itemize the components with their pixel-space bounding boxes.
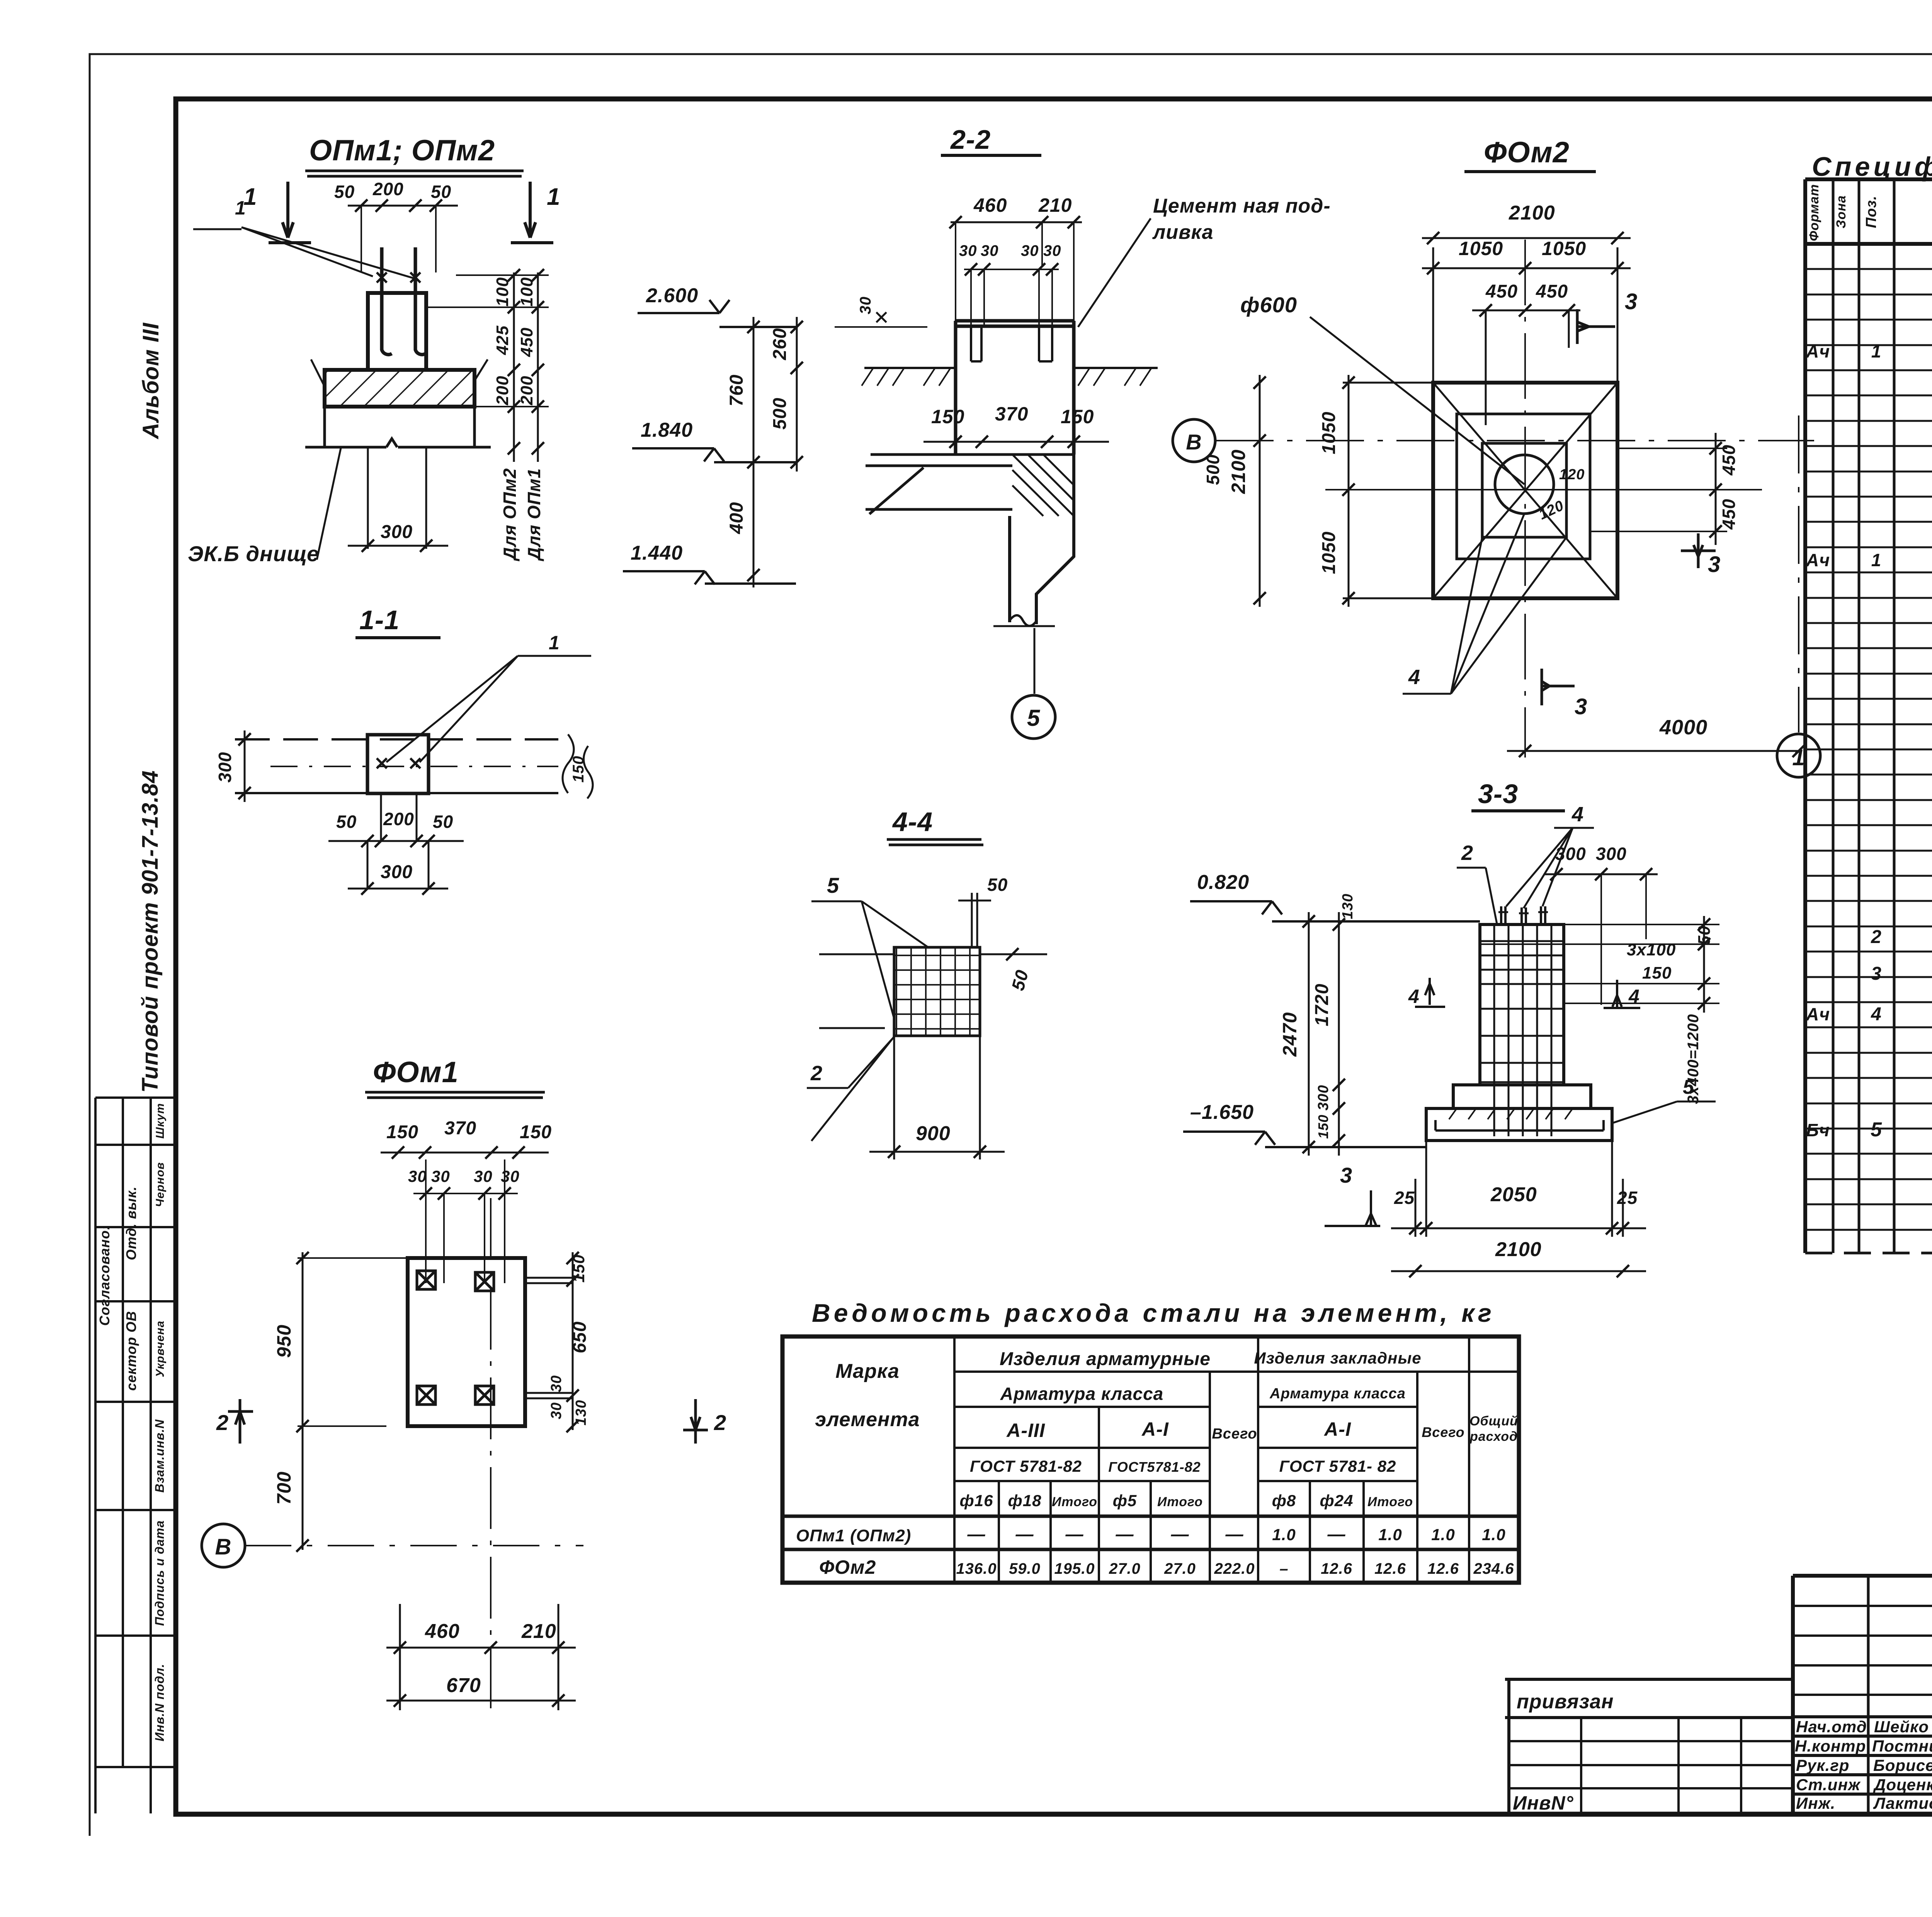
svg-text:Ведомость расхода стали на эле: Ведомость расхода стали на элемент, кг (812, 1299, 1492, 1327)
привязан sub-table (1505, 1679, 1793, 1813)
svg-text:222.0: 222.0 (1214, 1560, 1255, 1577)
svg-text:460: 460 (425, 1620, 460, 1643)
hatched corner (1012, 455, 1074, 516)
svg-text:5: 5 (1683, 1076, 1694, 1098)
svg-text:ф5: ф5 (1113, 1491, 1137, 1510)
svg-text:ГОСТ 5781- 82: ГОСТ 5781- 82 (1279, 1457, 1396, 1475)
svg-text:Согласовано:: Согласовано: (97, 1225, 112, 1326)
inner square (1482, 443, 1566, 537)
svg-text:30: 30 (981, 242, 999, 259)
svg-text:12.6: 12.6 (1374, 1560, 1406, 1577)
svg-text:460: 460 (973, 194, 1007, 216)
svg-text:200: 200 (372, 179, 404, 199)
svg-text:1: 1 (1871, 341, 1882, 361)
svg-text:—: — (967, 1524, 986, 1544)
svg-text:5: 5 (1027, 705, 1041, 731)
svg-text:2: 2 (1871, 927, 1882, 947)
svg-text:5: 5 (1871, 1119, 1882, 1141)
svg-text:30: 30 (1021, 242, 1039, 259)
svg-text:760: 760 (726, 374, 747, 406)
margin rotated labels (97, 1103, 167, 1742)
axis B circle (202, 1524, 245, 1567)
svg-text:элемента: элемента (815, 1408, 920, 1431)
svg-text:1: 1 (549, 632, 560, 654)
svg-text:2: 2 (810, 1062, 823, 1085)
svg-text:—: — (1171, 1524, 1189, 1544)
svg-text:150: 150 (1642, 964, 1672, 982)
axis 1 circle (1777, 734, 1820, 777)
svg-text:Нач.отд: Нач.отд (1796, 1718, 1867, 1736)
center cross lines (1325, 489, 1762, 490)
svg-text:2: 2 (1461, 841, 1473, 865)
svg-text:2050: 2050 (1490, 1183, 1537, 1206)
ground line with hatching (864, 367, 1158, 369)
svg-text:195.0: 195.0 (1054, 1560, 1095, 1577)
svg-text:4: 4 (1628, 986, 1640, 1007)
svg-text:900: 900 (916, 1122, 951, 1145)
middle square (1457, 414, 1590, 559)
svg-text:27.0: 27.0 (1164, 1560, 1196, 1577)
svg-text:2100: 2100 (1495, 1238, 1542, 1261)
anchor bolts (382, 247, 425, 354)
svg-text:30: 30 (474, 1167, 493, 1185)
svg-text:1.440: 1.440 (631, 542, 683, 564)
svg-text:12.6: 12.6 (1427, 1560, 1459, 1577)
column ОПм (368, 293, 426, 370)
drawing 1-1 section plan (215, 605, 593, 895)
svg-text:50: 50 (336, 812, 357, 832)
svg-text:ГОСТ5781-82: ГОСТ5781-82 (1108, 1459, 1201, 1475)
signature rows text (1795, 1714, 1932, 1812)
right dim chain 450 450 (1715, 433, 1717, 545)
svg-text:1-1: 1-1 (359, 605, 400, 635)
svg-text:4000: 4000 (1659, 716, 1708, 739)
svg-text:расход: расход (1469, 1429, 1518, 1444)
svg-text:120: 120 (1559, 466, 1585, 483)
spec table content (1806, 267, 1932, 1260)
svg-text:300: 300 (381, 862, 413, 882)
svg-text:30: 30 (548, 1402, 565, 1419)
svg-text:ФОм2: ФОм2 (819, 1556, 876, 1578)
margin approval table (95, 1098, 175, 1813)
svg-text:150: 150 (570, 1254, 588, 1282)
drawing ФОм2 plan (1173, 136, 1820, 777)
svg-text:500: 500 (770, 397, 790, 429)
svg-text:ЭК.Б днище: ЭК.Б днище (188, 541, 319, 566)
svg-text:130: 130 (1340, 894, 1356, 919)
svg-text:Для ОПм2: Для ОПм2 (500, 468, 520, 562)
svg-text:950: 950 (273, 1325, 295, 1358)
svg-text:400: 400 (726, 502, 747, 534)
title block (угловой штамп) (1505, 1576, 1932, 1861)
svg-text:150: 150 (1061, 406, 1094, 427)
svg-text:Поз.: Поз. (1863, 196, 1879, 228)
svg-text:Общий: Общий (1469, 1414, 1518, 1428)
vedomost grid (782, 1336, 1519, 1583)
svg-text:136.0: 136.0 (956, 1560, 997, 1577)
right dim chain (572, 1252, 574, 1430)
svg-text:30: 30 (1043, 242, 1061, 259)
footing outline (408, 1258, 525, 1426)
svg-text:30: 30 (548, 1375, 565, 1392)
svg-text:370: 370 (995, 403, 1028, 425)
svg-text:А-I: А-I (1323, 1418, 1351, 1440)
svg-text:2100: 2100 (1228, 449, 1249, 494)
spec header labels (1807, 184, 1932, 242)
left dim chain 950 700 (302, 1252, 304, 1550)
svg-text:4: 4 (1571, 803, 1584, 826)
axis B line (1216, 440, 1814, 441)
svg-text:1.0: 1.0 (1378, 1525, 1402, 1544)
outer footing square (1433, 383, 1617, 598)
specification table (Спецификация к монолитным конструкциям) (1805, 152, 1932, 1253)
svg-text:450: 450 (1536, 281, 1568, 302)
slab lower band (305, 407, 491, 448)
svg-text:Инж.: Инж. (1796, 1794, 1835, 1812)
svg-text:1: 1 (547, 184, 560, 210)
svg-text:Инв.N подл.: Инв.N подл. (153, 1663, 167, 1741)
drawing ОПм1;ОПм2 elevation (188, 134, 560, 566)
svg-text:1050: 1050 (1319, 531, 1339, 574)
svg-text:привязан: привязан (1517, 1691, 1614, 1713)
svg-text:2470: 2470 (1279, 1012, 1301, 1057)
svg-text:12.6: 12.6 (1321, 1560, 1352, 1577)
svg-text:200: 200 (517, 376, 536, 405)
svg-text:А-III: А-III (1006, 1420, 1045, 1441)
svg-text:150: 150 (931, 406, 964, 427)
svg-text:150: 150 (1315, 1114, 1331, 1139)
svg-text:Отд. вык.: Отд. вык. (123, 1186, 139, 1260)
svg-text:1.0: 1.0 (1482, 1525, 1505, 1544)
svg-text:1720: 1720 (1312, 984, 1332, 1027)
svg-text:450: 450 (1485, 281, 1518, 302)
svg-text:1: 1 (1871, 550, 1882, 570)
right dim chains 100/425/200 (514, 272, 538, 462)
svg-text:59.0: 59.0 (1009, 1560, 1041, 1577)
svg-text:–: – (1279, 1560, 1288, 1577)
svg-text:25: 25 (1394, 1188, 1415, 1208)
svg-text:Доценко: Доценко (1873, 1776, 1932, 1794)
svg-text:Арматура класса: Арматура класса (1269, 1386, 1406, 1402)
svg-text:2: 2 (216, 1410, 229, 1435)
dim 50 right (980, 953, 1047, 955)
svg-text:30: 30 (408, 1167, 427, 1185)
wall strip dashed (235, 738, 558, 741)
svg-text:Арматура класса: Арматура класса (1000, 1384, 1164, 1404)
svg-text:150: 150 (520, 1122, 552, 1142)
vertical dim chain 760/400 (753, 317, 755, 587)
svg-text:300: 300 (381, 522, 413, 542)
signature table grid (1793, 1576, 1932, 1813)
steel consumption table (Ведомость расхода стали) (782, 1299, 1519, 1583)
svg-text:3: 3 (1625, 289, 1638, 314)
svg-text:Изделия арматурные: Изделия арматурные (1000, 1349, 1211, 1369)
svg-text:4: 4 (1408, 666, 1420, 689)
vedomost header labels (815, 1349, 1518, 1510)
svg-text:Ач: Ач (1806, 341, 1830, 361)
svg-text:–1.650: –1.650 (1190, 1101, 1254, 1124)
svg-text:1: 1 (1792, 745, 1805, 770)
svg-text:450: 450 (517, 327, 536, 357)
svg-text:450: 450 (1719, 499, 1739, 530)
svg-text:—: — (1327, 1524, 1346, 1544)
bolt axes lines to right chain (525, 1278, 573, 1398)
svg-text:Взам.инв.N: Взам.инв.N (153, 1419, 167, 1493)
callout circle 5 (1012, 695, 1055, 739)
svg-text:Ач: Ач (1806, 550, 1830, 570)
svg-text:1050: 1050 (1459, 238, 1503, 259)
svg-text:Всего: Всего (1422, 1424, 1464, 1440)
svg-text:300: 300 (215, 752, 235, 783)
svg-text:Н.контр: Н.контр (1795, 1737, 1866, 1755)
svg-text:Формат: Формат (1807, 184, 1821, 241)
svg-text:Итого: Итого (1052, 1495, 1097, 1509)
svg-text:150: 150 (570, 756, 587, 783)
anchor bolts top (1501, 906, 1545, 924)
svg-text:1.0: 1.0 (1431, 1525, 1455, 1544)
svg-text:Типовой проект 901-7-13.84: Типовой проект 901-7-13.84 (138, 770, 163, 1093)
svg-text:300: 300 (1315, 1085, 1332, 1110)
svg-text:50: 50 (334, 182, 355, 202)
svg-text:50: 50 (987, 875, 1008, 895)
svg-text:Рук.гр: Рук.гр (1796, 1756, 1849, 1774)
svg-text:4: 4 (1408, 986, 1420, 1007)
svg-text:Шкут: Шкут (154, 1103, 167, 1139)
wall below slab (1010, 455, 1074, 624)
svg-text:Борисенко: Борисенко (1873, 1756, 1932, 1774)
svg-text:3: 3 (1871, 964, 1882, 984)
svg-text:300: 300 (1555, 844, 1586, 864)
svg-text:сектор ОВ: сектор ОВ (123, 1311, 139, 1391)
svg-text:670: 670 (446, 1674, 481, 1697)
svg-text:3-3: 3-3 (1478, 779, 1518, 809)
dim chain 1720 300 150 (1338, 912, 1340, 1156)
svg-text:210: 210 (521, 1620, 556, 1643)
axis B circle (1173, 419, 1215, 462)
svg-text:130: 130 (573, 1400, 589, 1425)
svg-text:1.0: 1.0 (1272, 1525, 1296, 1544)
svg-text:300: 300 (1596, 844, 1627, 864)
svg-text:Шейко: Шейко (1874, 1718, 1929, 1736)
column section square (367, 735, 429, 793)
svg-text:ф24: ф24 (1320, 1491, 1354, 1510)
svg-text:ф18: ф18 (1008, 1491, 1042, 1510)
svg-text:5: 5 (827, 873, 839, 897)
base rebar (1435, 1120, 1604, 1130)
vedomost data rows (796, 1524, 1514, 1578)
svg-text:ф600: ф600 (1240, 293, 1297, 317)
svg-text:Итого: Итого (1367, 1495, 1413, 1509)
svg-text:4-4: 4-4 (892, 807, 933, 837)
svg-text:1: 1 (235, 197, 246, 219)
svg-text:30: 30 (501, 1167, 520, 1185)
svg-text:50: 50 (433, 812, 453, 832)
svg-text:210: 210 (1038, 194, 1072, 216)
svg-text:ОПм1; ОПм2: ОПм1; ОПм2 (309, 134, 495, 167)
svg-text:425: 425 (493, 325, 512, 355)
svg-text:2.600: 2.600 (646, 284, 698, 307)
svg-text:ГОСТ 5781-82: ГОСТ 5781-82 (970, 1457, 1082, 1475)
svg-text:0.820: 0.820 (1197, 871, 1249, 894)
slab under column (866, 455, 1074, 514)
left margin stamp column (95, 322, 175, 1813)
svg-text:Постников: Постников (1872, 1737, 1932, 1755)
column rebar grid (1480, 924, 1564, 1136)
svg-text:Ст.инж: Ст.инж (1796, 1776, 1861, 1794)
svg-text:ФОм1: ФОм1 (373, 1056, 459, 1089)
svg-text:3х100: 3х100 (1627, 940, 1676, 959)
svg-text:Лактионов: Лактионов (1873, 1794, 1932, 1812)
svg-text:ОПм1 (ОПм2): ОПм1 (ОПм2) (796, 1526, 911, 1545)
svg-text:100: 100 (517, 277, 536, 306)
svg-text:3: 3 (1340, 1163, 1352, 1187)
svg-text:4: 4 (1871, 1004, 1882, 1025)
svg-text:ФОм2: ФОм2 (1484, 136, 1570, 169)
right dim chain 50 3x100 150 (1480, 924, 1719, 1003)
svg-text:Чернов: Чернов (154, 1162, 167, 1207)
svg-text:260: 260 (770, 328, 790, 360)
svg-text:Ач: Ач (1806, 1004, 1830, 1024)
svg-text:ф16: ф16 (960, 1491, 993, 1510)
svg-text:Изделия закладные: Изделия закладные (1254, 1349, 1421, 1367)
center axis vertical (490, 1198, 492, 1716)
svg-text:30: 30 (431, 1167, 450, 1185)
svg-text:3: 3 (1708, 552, 1721, 577)
svg-text:25: 25 (1617, 1188, 1638, 1208)
svg-text:30: 30 (857, 296, 874, 315)
svg-text:Альбом III: Альбом III (138, 322, 163, 440)
svg-text:В: В (215, 1534, 232, 1559)
svg-text:ф8: ф8 (1272, 1491, 1296, 1510)
svg-text:Подпись и дата: Подпись и дата (153, 1520, 167, 1626)
svg-text:1050: 1050 (1319, 412, 1339, 455)
svg-text:Итого: Итого (1157, 1495, 1203, 1509)
svg-text:450: 450 (1719, 444, 1739, 476)
level line and leader to 5 (993, 626, 1055, 694)
svg-text:—: — (1116, 1524, 1134, 1544)
svg-text:700: 700 (273, 1471, 295, 1505)
svg-text:—: — (1065, 1524, 1084, 1544)
spec table grid (1805, 179, 1932, 1253)
svg-text:150: 150 (386, 1122, 418, 1142)
anchor bolts 2-2 (971, 326, 1052, 361)
svg-text:2-2: 2-2 (950, 124, 991, 155)
anchor circle (1495, 455, 1554, 514)
svg-text:Всего: Всего (1212, 1426, 1257, 1442)
svg-text:200: 200 (493, 376, 512, 405)
svg-text:Марка: Марка (835, 1360, 900, 1382)
svg-text:Цемент ная под-: Цемент ная под- (1153, 195, 1331, 217)
svg-text:В: В (1186, 430, 1202, 454)
anchor plates (417, 1271, 494, 1405)
svg-text:1.840: 1.840 (641, 419, 693, 441)
svg-text:ИнвN°: ИнвN° (1513, 1792, 1573, 1814)
drawing ФОм1 plan (202, 1056, 726, 1716)
axis 1 line (1798, 415, 1799, 732)
break squiggle right (563, 734, 593, 798)
svg-text:Укрвчена: Укрвчена (154, 1321, 167, 1377)
svg-text:2: 2 (714, 1410, 726, 1435)
drawing 3-3 section (1183, 779, 1719, 1277)
svg-text:1050: 1050 (1542, 238, 1586, 259)
drawing 4-4 section (807, 807, 1047, 1159)
column 3-3 (1480, 924, 1564, 1085)
svg-text:27.0: 27.0 (1109, 1560, 1141, 1577)
svg-text:30: 30 (959, 242, 977, 259)
svg-text:370: 370 (444, 1118, 476, 1139)
column 2-2 (956, 321, 1074, 455)
svg-text:Бч: Бч (1806, 1120, 1830, 1140)
steps and base (1453, 1085, 1591, 1108)
svg-text:А-I: А-I (1141, 1418, 1169, 1440)
drawing 2-2 section (623, 124, 1331, 739)
svg-text:500: 500 (1203, 454, 1223, 485)
svg-text:650: 650 (570, 1321, 590, 1353)
bolt marks (377, 758, 420, 768)
slab hatched (325, 370, 474, 407)
svg-text:Для ОПм1: Для ОПм1 (524, 468, 544, 562)
svg-text:—: — (1015, 1524, 1034, 1544)
svg-text:2100: 2100 (1509, 202, 1555, 224)
svg-text:ливка: ливка (1152, 221, 1213, 243)
svg-text:200: 200 (383, 809, 414, 829)
svg-text:100: 100 (493, 277, 512, 306)
mesh square (894, 947, 980, 1036)
svg-text:—: — (1225, 1524, 1244, 1544)
svg-text:3: 3 (1575, 694, 1587, 719)
dim chain 2470 (1308, 912, 1310, 1156)
diagonals (1433, 383, 1617, 598)
vertical dim chain 260/500 (796, 317, 798, 472)
left lines (819, 954, 894, 1028)
svg-text:Зона: Зона (1834, 195, 1849, 228)
svg-text:234.6: 234.6 (1473, 1560, 1514, 1577)
